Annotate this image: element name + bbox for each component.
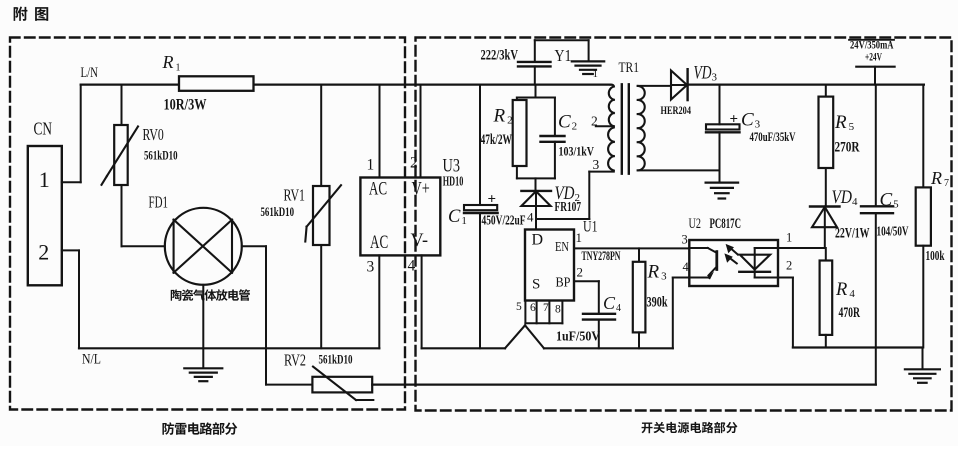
- wire U1 BP to C4: [574, 281, 599, 314]
- switching power section dashed border: [416, 38, 952, 411]
- svg-text:2: 2: [38, 240, 49, 265]
- svg-text:561kD10: 561kD10: [261, 205, 295, 219]
- svg-text:7: 7: [944, 178, 949, 189]
- svg-text:TNY278PN: TNY278PN: [582, 249, 621, 263]
- svg-text:4: 4: [616, 303, 621, 314]
- svg-text:S: S: [532, 277, 540, 293]
- transformer TR1 core: [622, 84, 629, 173]
- svg-text:1: 1: [461, 215, 467, 227]
- svg-text:AC: AC: [369, 179, 387, 199]
- wire secondary bottom to C3 ground: [638, 169, 720, 171]
- svg-text:R: R: [835, 280, 847, 300]
- svg-text:U2: U2: [689, 216, 702, 232]
- svg-text:47k/2W: 47k/2W: [481, 132, 513, 148]
- svg-text:1: 1: [593, 68, 599, 80]
- svg-text:5: 5: [849, 121, 855, 133]
- capacitor C2: [541, 136, 565, 142]
- svg-text:2: 2: [410, 155, 418, 172]
- svg-text:V+: V+: [412, 179, 430, 199]
- wire secondary ground rail: [793, 346, 923, 348]
- svg-text:C: C: [741, 110, 754, 131]
- svg-text:C: C: [880, 190, 893, 211]
- svg-text:5: 5: [893, 199, 899, 211]
- resistor R2: [513, 100, 527, 166]
- svg-text:CN: CN: [34, 119, 53, 139]
- transformer TR1 secondary winding: [638, 86, 645, 170]
- wire U3 pin1 from rail: [379, 85, 381, 178]
- svg-text:+: +: [730, 112, 739, 128]
- svg-text:22V/1W: 22V/1W: [835, 226, 870, 242]
- svg-text:561kD10: 561kD10: [319, 353, 353, 367]
- svg-text:390k: 390k: [647, 295, 668, 311]
- svg-text:3: 3: [682, 233, 688, 247]
- resistor R1: [179, 76, 254, 91]
- svg-text:1uF/50V: 1uF/50V: [556, 330, 600, 345]
- svg-text:4: 4: [852, 196, 858, 208]
- svg-text:VD: VD: [694, 64, 712, 84]
- diode VD2 FR107: [521, 191, 551, 230]
- svg-text:+24V: +24V: [865, 50, 882, 64]
- svg-text:5: 5: [516, 301, 522, 313]
- svg-text:103/1kV: 103/1kV: [559, 144, 595, 159]
- resistor R3: [633, 248, 646, 348]
- label 防雷电路部分: [162, 422, 237, 435]
- wire U3 pin2 V+ to rail: [420, 85, 422, 178]
- svg-text:4: 4: [849, 288, 855, 300]
- varistor RV0: [102, 85, 139, 247]
- lightning protection section dashed border: [10, 38, 405, 410]
- resistor R5: [819, 85, 834, 207]
- wire U2 pin2: [755, 278, 793, 348]
- svg-text:1: 1: [576, 230, 583, 245]
- U1 bottom pins 5-8: [525, 301, 562, 324]
- svg-text:1: 1: [39, 167, 50, 192]
- earth ground output: [905, 348, 940, 383]
- wire U1 EN to U2 pin3: [574, 247, 689, 249]
- svg-text:PC817C: PC817C: [710, 216, 742, 232]
- capacitor C5 104/50V: [861, 85, 893, 385]
- svg-text:Y1: Y1: [555, 46, 572, 65]
- svg-text:2: 2: [507, 115, 513, 127]
- svg-text:4: 4: [527, 210, 534, 225]
- svg-text:RV0: RV0: [143, 125, 164, 144]
- U2 light arrows: [724, 244, 738, 264]
- wire N/L bottom rail: [79, 347, 379, 349]
- svg-text:1: 1: [786, 231, 792, 245]
- diode VD3 HER204: [671, 69, 688, 100]
- svg-text:R: R: [647, 262, 660, 283]
- svg-text:470R: 470R: [839, 305, 861, 321]
- wire RV0 to FD1: [122, 245, 165, 247]
- earth ground Y1: [572, 61, 604, 74]
- wire U2 pin1: [755, 247, 824, 249]
- wire RV2 to C5 ground junction: [372, 384, 876, 386]
- wire CN pin2 to N/L rail: [62, 250, 79, 348]
- optocoupler U2 PC817C box: [689, 240, 778, 286]
- svg-text:FR107: FR107: [555, 200, 582, 215]
- IC U1 TNY278PN: [525, 230, 574, 301]
- svg-text:FD1: FD1: [149, 192, 169, 211]
- svg-text:RV1: RV1: [284, 185, 306, 204]
- svg-text:2: 2: [572, 121, 578, 133]
- svg-text:+: +: [488, 192, 497, 208]
- bridge rectifier U3 box: [360, 178, 440, 256]
- svg-text:450V/22uF: 450V/22uF: [482, 213, 526, 228]
- svg-text:3: 3: [712, 72, 718, 84]
- svg-text:3: 3: [593, 157, 600, 172]
- svg-text:VD: VD: [832, 188, 853, 208]
- connector CN: [28, 146, 62, 285]
- svg-text:8: 8: [555, 304, 561, 316]
- capacitor Y1 222/3kV: [518, 40, 589, 84]
- svg-text:3: 3: [661, 271, 667, 283]
- svg-text:10R/3W: 10R/3W: [164, 96, 207, 113]
- capacitor C3 470uF/35kV: [706, 85, 740, 183]
- wire CN pin1 to L/N rail: [62, 85, 81, 183]
- svg-text:R: R: [162, 52, 174, 72]
- zener diode VD4: [810, 207, 840, 249]
- resistor R7: [916, 85, 931, 348]
- svg-text:470uF/35kV: 470uF/35kV: [750, 129, 796, 144]
- wire U2 pin4 to primary ground: [673, 278, 690, 349]
- title 附图: [14, 7, 49, 21]
- svg-text:R: R: [930, 168, 942, 188]
- svg-text:BP: BP: [556, 276, 571, 291]
- U2 LED: [739, 248, 770, 278]
- R2 C2 snubber frame: [517, 85, 555, 191]
- wire VD2 node to transformer pin3: [536, 172, 614, 219]
- U2 phototransistor: [689, 248, 717, 280]
- svg-text:6: 6: [530, 302, 536, 314]
- svg-text:C: C: [603, 293, 616, 313]
- svg-text:100k: 100k: [926, 249, 945, 264]
- svg-text:104/50V: 104/50V: [877, 225, 909, 240]
- output terminal +24V: [849, 40, 895, 85]
- earth ground C3: [706, 183, 739, 199]
- svg-text:2: 2: [786, 259, 792, 273]
- svg-text:RV2: RV2: [284, 351, 306, 370]
- svg-text:C: C: [558, 112, 571, 133]
- svg-text:561kD10: 561kD10: [144, 148, 178, 162]
- svg-text:1: 1: [175, 62, 180, 73]
- wire FD1 right to RV2 branch: [242, 246, 266, 384]
- svg-text:4: 4: [408, 258, 416, 275]
- gas discharge tube FD1: [165, 208, 242, 285]
- label 开关电源电路部分: [642, 422, 738, 434]
- svg-text:U1: U1: [583, 219, 598, 236]
- svg-text:1: 1: [367, 157, 375, 174]
- transformer TR1 primary winding: [608, 85, 614, 171]
- svg-text:L/N: L/N: [81, 65, 99, 81]
- wire L/N top rail: [81, 83, 611, 85]
- svg-text:3: 3: [367, 259, 375, 276]
- svg-text:HER204: HER204: [661, 103, 692, 117]
- svg-text:270R: 270R: [835, 140, 860, 156]
- svg-text:HD10: HD10: [443, 173, 464, 188]
- resistor R4: [820, 248, 833, 348]
- U1 source tent to ground rail: [505, 325, 544, 348]
- svg-text:2: 2: [591, 114, 598, 129]
- svg-text:7: 7: [543, 302, 549, 314]
- capacitor C1 450V/22uF: [464, 85, 498, 349]
- svg-text:222/3kV: 222/3kV: [481, 47, 519, 63]
- label 陶瓷气体放电管: [171, 289, 250, 301]
- wire U3 pin4 V- to primary ground rail: [421, 255, 423, 348]
- svg-text:2: 2: [577, 265, 584, 280]
- svg-text:TR1: TR1: [619, 60, 640, 76]
- svg-text:V-: V-: [411, 231, 429, 251]
- svg-text:D: D: [532, 232, 544, 249]
- FD1 earth electrode: [184, 285, 222, 381]
- svg-text:4: 4: [683, 260, 690, 274]
- varistor RV1: [305, 85, 341, 349]
- svg-text:C: C: [448, 207, 461, 227]
- wire primary ground rail: [422, 347, 673, 349]
- svg-text:EN: EN: [555, 240, 569, 255]
- svg-text:N/L: N/L: [82, 352, 101, 368]
- wire secondary output rail: [688, 83, 924, 85]
- capacitor C4: [583, 314, 615, 349]
- wire secondary top to VD3: [638, 85, 671, 87]
- varistor RV2: [266, 367, 373, 400]
- svg-text:AC: AC: [370, 233, 388, 253]
- wire U3 pin3 to N/L: [378, 255, 380, 348]
- svg-text:R: R: [493, 106, 506, 127]
- transformer pin2 stub: [596, 125, 614, 127]
- svg-text:R: R: [834, 112, 847, 133]
